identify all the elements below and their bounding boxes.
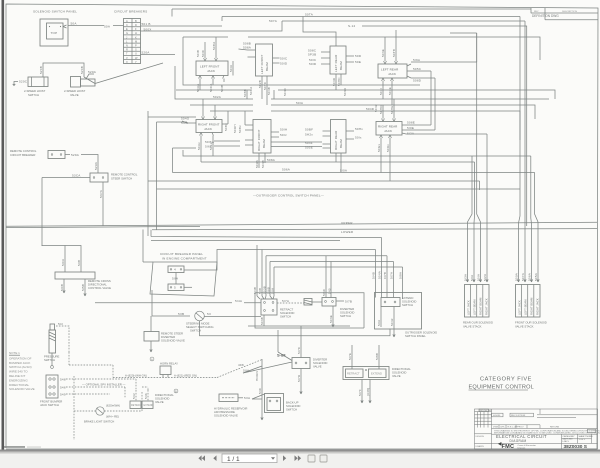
svg-text:508D: 508D bbox=[413, 79, 422, 83]
remote control steer switch bbox=[42, 173, 138, 247]
svg-text:RETURN: RETURN bbox=[550, 427, 560, 429]
svg-text:CONTROL VALVE: CONTROL VALVE bbox=[88, 286, 111, 290]
switch panel box (retract/diverter) bbox=[255, 293, 364, 328]
svg-text:VALVE STACK: VALVE STACK bbox=[463, 325, 482, 329]
svg-text:LEFT JACK: LEFT JACK bbox=[466, 300, 470, 315]
svg-text:X: X bbox=[126, 60, 128, 64]
svg-text:ENERGIZING: ENERGIZING bbox=[9, 378, 28, 382]
svg-text:HORN RELAY: HORN RELAY bbox=[160, 362, 178, 366]
svg-text:RIGHT JACK: RIGHT JACK bbox=[485, 298, 489, 315]
svg-text:Division: Division bbox=[518, 447, 526, 449]
svg-text:RELINE KIT: RELINE KIT bbox=[9, 374, 26, 378]
svg-text:50Gx: 50Gx bbox=[377, 144, 381, 152]
svg-text:CATEGORY: CATEGORY bbox=[563, 435, 576, 438]
svg-text:503E: 503E bbox=[381, 49, 385, 57]
outrigger solenoid switch panel box (extend) bbox=[375, 293, 422, 330]
wire 520A diagonal to hoist valve bbox=[95, 63, 163, 84]
FMC logo bbox=[498, 442, 536, 450]
svg-text:501 B: 501 B bbox=[142, 22, 151, 26]
svg-text:503B: 503B bbox=[260, 317, 264, 325]
svg-text:50IJ: 50IJ bbox=[280, 133, 287, 137]
svg-text:V: V bbox=[126, 56, 128, 60]
svg-text:RETRACT: RETRACT bbox=[347, 372, 360, 376]
svg-text:504D: 504D bbox=[366, 107, 375, 111]
svg-text:50HE: 50HE bbox=[390, 105, 394, 114]
svg-text:546: 546 bbox=[60, 386, 66, 390]
svg-text:5I6C: 5I6C bbox=[322, 288, 326, 296]
svg-text:SWITCH: SWITCH bbox=[280, 315, 291, 319]
svg-text:JACK: JACK bbox=[204, 127, 212, 131]
2-speed hoist valve bbox=[64, 70, 97, 97]
svg-text:5I2A: 5I2A bbox=[407, 132, 415, 136]
svg-text:508A: 508A bbox=[243, 46, 252, 50]
svg-text:EQUIPMENT CONTROL: EQUIPMENT CONTROL bbox=[469, 385, 534, 391]
svg-text:BEAM: BEAM bbox=[339, 139, 343, 148]
svg-text:504C: 504C bbox=[283, 87, 287, 96]
svg-text:50HD: 50HD bbox=[379, 105, 383, 114]
svg-text:R: R bbox=[126, 48, 128, 52]
svg-text:507A: 507A bbox=[521, 272, 525, 281]
op beam box: LEFT FRONT BEAM bbox=[239, 42, 288, 106]
svg-text:529A: 529A bbox=[71, 153, 80, 157]
svg-text:A: A bbox=[151, 357, 153, 361]
svg-text:509A: 509A bbox=[255, 159, 259, 168]
svg-text:OPERATION OF: OPERATION OF bbox=[9, 356, 32, 360]
svg-text:K: K bbox=[135, 35, 137, 39]
svg-text:5II: 5II bbox=[207, 312, 211, 316]
svg-text:50Hx: 50Hx bbox=[355, 127, 363, 131]
svg-text:DEFINITION DWG: DEFINITION DWG bbox=[532, 14, 559, 18]
rear valve stack wire bundle bbox=[466, 33, 488, 282]
svg-text:498: 498 bbox=[238, 363, 244, 367]
svg-text:5: 5 bbox=[174, 286, 176, 290]
toolbar bbox=[0, 450, 600, 468]
svg-text:RIGHT BEAM: RIGHT BEAM bbox=[479, 297, 483, 315]
svg-text:50ID: 50ID bbox=[309, 62, 317, 66]
svg-text:D: D bbox=[135, 23, 137, 27]
svg-text:A-(620)-(WH GN): A-(620)-(WH GN) bbox=[125, 373, 147, 377]
retract solenoid switch bbox=[95, 245, 350, 342]
svg-text:50IH: 50IH bbox=[280, 128, 287, 132]
svg-text:BEAM: BEAM bbox=[339, 61, 343, 70]
svg-text:SHEET NONE: SHEET NONE bbox=[579, 436, 594, 438]
svg-text:5I3A: 5I3A bbox=[464, 273, 468, 281]
svg-text:50Bx: 50Bx bbox=[238, 125, 242, 133]
svg-text:A: A bbox=[126, 19, 128, 23]
back-up alarm solenoid switch bbox=[243, 359, 300, 420]
svg-text:SWITCH: SWITCH bbox=[28, 93, 39, 97]
svg-text:50A: 50A bbox=[71, 22, 78, 26]
svg-text:5I0A: 5I0A bbox=[61, 258, 65, 266]
svg-text:JACK SWITCH: JACK SWITCH bbox=[40, 403, 59, 407]
svg-text:50BA: 50BA bbox=[249, 86, 253, 95]
svg-text:BEAM: BEAM bbox=[265, 62, 269, 71]
svg-text:50Bx: 50Bx bbox=[224, 123, 228, 131]
outrigger solenoid switch panel label bbox=[405, 331, 437, 339]
steering mode select switch bbox=[178, 311, 214, 332]
svg-text:(WH • RE): (WH • RE) bbox=[106, 415, 119, 419]
svg-text:5P3B: 5P3B bbox=[308, 52, 316, 56]
svg-text:S-88: S-88 bbox=[277, 353, 286, 358]
svg-text:504G: 504G bbox=[181, 117, 190, 121]
front our solenoid valve stack bbox=[515, 285, 547, 329]
svg-text:506A: 506A bbox=[528, 272, 532, 281]
svg-text:RIGHT REAR: RIGHT REAR bbox=[378, 125, 398, 129]
svg-text:504I: 504I bbox=[379, 88, 383, 95]
svg-text:BRAKE LIGHT SWITCH: BRAKE LIGHT SWITCH bbox=[84, 420, 114, 424]
svg-text:509A: 509A bbox=[515, 272, 519, 281]
svg-text:5I8A: 5I8A bbox=[399, 271, 403, 279]
svg-text:50IC: 50IC bbox=[201, 49, 205, 57]
svg-text:50TA: 50TA bbox=[305, 13, 314, 17]
beam-to-beam links row2 bbox=[271, 142, 322, 147]
svg-text:505A: 505A bbox=[534, 272, 538, 281]
svg-text:TOP: TOP bbox=[51, 31, 58, 35]
svg-text:50A: 50A bbox=[104, 25, 111, 29]
svg-text:0I7B: 0I7B bbox=[383, 272, 387, 279]
svg-text:54K: 54K bbox=[144, 392, 148, 399]
svg-text:508E: 508E bbox=[407, 121, 415, 125]
svg-text:SOLENOID VALVE: SOLENOID VALVE bbox=[161, 339, 185, 343]
svg-text:504A: 504A bbox=[378, 270, 382, 279]
svg-text:CHK: CHK bbox=[500, 427, 505, 429]
svg-text:5IIA: 5IIA bbox=[172, 277, 179, 281]
svg-text:53CA: 53CA bbox=[72, 174, 81, 178]
svg-text:520A: 520A bbox=[142, 51, 151, 55]
svg-text:LEFT BEAM: LEFT BEAM bbox=[472, 299, 476, 315]
svg-text:R.E.C. APPROV: R.E.C. APPROV bbox=[508, 426, 525, 429]
svg-text:503E: 503E bbox=[329, 315, 333, 323]
svg-text:548: 548 bbox=[60, 378, 66, 382]
svg-text:5I7A: 5I7A bbox=[282, 299, 290, 303]
svg-text:A-(621)-(RED GN): A-(621)-(RED GN) bbox=[174, 373, 197, 377]
svg-text:N: N bbox=[126, 44, 128, 48]
op jack box: RIGHT FRONT JACK bbox=[181, 99, 228, 162]
svg-text:C: C bbox=[126, 23, 128, 27]
svg-text:SWITCH: SWITCH bbox=[190, 329, 201, 333]
wire 501B bbox=[141, 25, 152, 27]
svg-text:BUMPER JACK: BUMPER JACK bbox=[9, 361, 30, 365]
svg-text:JACK: JACK bbox=[388, 72, 396, 76]
svg-text:DIRECTIONAL: DIRECTIONAL bbox=[9, 383, 30, 387]
svg-text:503F: 503F bbox=[305, 141, 313, 145]
svg-text:SWITCH: SWITCH bbox=[286, 408, 297, 412]
svg-text:50IB: 50IB bbox=[196, 50, 200, 57]
svg-text:5I6F: 5I6F bbox=[205, 145, 212, 149]
svg-text:5IIA: 5IIA bbox=[244, 396, 251, 400]
svg-text:506A: 506A bbox=[282, 168, 291, 172]
svg-text:VALVE: VALVE bbox=[313, 365, 322, 369]
horn relay bbox=[113, 357, 262, 393]
svg-text:54J: 54J bbox=[132, 393, 136, 399]
svg-text:(620)•(WH): (620)•(WH) bbox=[106, 404, 120, 408]
svg-text:G: G bbox=[126, 31, 128, 35]
svg-text:STEER SWITCH: STEER SWITCH bbox=[111, 177, 132, 181]
svg-text:520A: 520A bbox=[88, 70, 97, 74]
svg-text:LEFT BEAM: LEFT BEAM bbox=[523, 299, 527, 315]
svg-text:50IB: 50IB bbox=[220, 85, 224, 92]
lower-left bus loops bbox=[42, 230, 403, 296]
op jack box: RIGHT REAR JACK bbox=[376, 99, 487, 181]
remote cross directional control valve bbox=[55, 272, 111, 296]
svg-text:SOLENOID VALVE: SOLENOID VALVE bbox=[214, 414, 238, 418]
svg-text:REVISIONS: REVISIONS bbox=[480, 410, 492, 412]
svg-text:EXTEND: EXTEND bbox=[144, 404, 154, 407]
svg-text:50IA: 50IA bbox=[477, 273, 481, 281]
op beam box: LEFT REAR BEAM bbox=[308, 46, 362, 90]
svg-text:HORN: HORN bbox=[255, 371, 259, 381]
svg-text:DESCRIPTION: DESCRIPTION bbox=[562, 11, 577, 13]
circuit breakers strip bbox=[114, 10, 175, 64]
svg-text:SOLENOID SWITCH PANEL: SOLENOID SWITCH PANEL bbox=[33, 10, 77, 14]
svg-text:507A: 507A bbox=[269, 19, 278, 23]
svg-text:SWITCH (ALSO): SWITCH (ALSO) bbox=[9, 365, 32, 369]
remote control circuit breaker bbox=[10, 149, 98, 173]
svg-text:5I5B: 5I5B bbox=[81, 284, 85, 291]
svg-text:50CA: 50CA bbox=[209, 83, 213, 92]
svg-text:5I7C: 5I7C bbox=[297, 346, 301, 354]
svg-text:502A: 502A bbox=[213, 95, 222, 99]
svg-text:5042: 5042 bbox=[374, 104, 378, 112]
svg-text:508A: 508A bbox=[267, 158, 276, 162]
svg-text:505C: 505C bbox=[413, 67, 422, 71]
svg-text:5I8B: 5I8B bbox=[375, 353, 379, 360]
svg-text:Crane & Excavator: Crane & Excavator bbox=[518, 444, 537, 447]
svg-text:5I2A: 5I2A bbox=[483, 273, 487, 281]
svg-text:50D: 50D bbox=[355, 54, 362, 58]
svg-text:DIAGRAM: DIAGRAM bbox=[510, 439, 527, 443]
svg-text:LOWER: LOWER bbox=[341, 230, 354, 234]
diverter solenoid valve bbox=[292, 342, 327, 394]
svg-text:JACK: JACK bbox=[207, 69, 215, 73]
svg-text:5I4A: 5I4A bbox=[235, 299, 243, 303]
rear our solenoid valve stack bbox=[463, 285, 493, 329]
svg-text:50ID: 50ID bbox=[280, 62, 288, 66]
extend solenoid switch bbox=[372, 270, 417, 337]
diverter solenoid switch bbox=[322, 256, 354, 327]
svg-text:502B: 502B bbox=[258, 80, 262, 88]
svg-text:5IIB: 5IIB bbox=[77, 260, 81, 266]
op jack box: LEFT REAR JACK bbox=[378, 30, 477, 130]
svg-text:CATEGORY FIVE: CATEGORY FIVE bbox=[480, 377, 532, 383]
brake light switch bbox=[74, 392, 142, 424]
node S-88 bbox=[243, 330, 292, 373]
svg-text:50Ax: 50Ax bbox=[197, 142, 201, 150]
title block bbox=[475, 409, 598, 449]
svg-text:CIRCUIT BREAKERS: CIRCUIT BREAKERS bbox=[114, 10, 147, 14]
directional solenoid valve (retract/extend) bbox=[343, 345, 411, 403]
svg-text:LEFT FRONT: LEFT FRONT bbox=[260, 54, 264, 74]
svg-text:(648): (648) bbox=[366, 388, 370, 396]
optional dashed harness bbox=[66, 352, 148, 440]
solenoid switch panel bbox=[33, 10, 77, 47]
svg-text:5I7A: 5I7A bbox=[390, 271, 394, 279]
svg-text:500X: 500X bbox=[144, 27, 152, 31]
svg-text:DESIGN: DESIGN bbox=[476, 436, 485, 438]
svg-text:5I7D: 5I7D bbox=[297, 374, 301, 382]
svg-text:RETRACT: RETRACT bbox=[131, 404, 143, 407]
svg-text:RIGHT FRONT: RIGHT FRONT bbox=[198, 123, 220, 127]
wire 520B switch to valve bbox=[39, 63, 84, 77]
wire 500X bbox=[141, 30, 155, 32]
svg-text:SOLENOID VALVE: SOLENOID VALVE bbox=[9, 387, 35, 391]
svg-text:520B: 520B bbox=[39, 66, 43, 74]
svg-text:NOTE 1: NOTE 1 bbox=[9, 351, 20, 355]
svg-text:5I9A: 5I9A bbox=[413, 58, 421, 62]
svg-text:50TB: 50TB bbox=[392, 49, 396, 57]
svg-text:RIGHT FRONT: RIGHT FRONT bbox=[257, 129, 261, 151]
svg-text:SWITCH: SWITCH bbox=[340, 314, 351, 318]
wire 50A panel to breakers bbox=[68, 22, 123, 29]
svg-text:P: P bbox=[135, 44, 137, 48]
svg-text:— OPTIONAL SPV INSTALLER —: — OPTIONAL SPV INSTALLER — bbox=[82, 383, 126, 387]
svg-text:B: B bbox=[135, 19, 137, 23]
svg-text:50IA: 50IA bbox=[229, 64, 233, 72]
svg-text:50E: 50E bbox=[355, 60, 361, 64]
retract/extend small directional valve bbox=[130, 390, 174, 409]
upper section bus wires (top loops) bbox=[172, 9, 531, 226]
svg-text:5I0H: 5I0H bbox=[181, 121, 188, 125]
svg-text:54I: 54I bbox=[58, 322, 63, 326]
svg-text:RIGHT BEAM: RIGHT BEAM bbox=[530, 297, 534, 315]
2-speed hoist switch bbox=[13, 77, 48, 97]
svg-text:EXTEND: EXTEND bbox=[371, 372, 382, 376]
svg-text:38Z0030 S: 38Z0030 S bbox=[564, 444, 588, 450]
svg-text:CAT 5 MO: CAT 5 MO bbox=[563, 438, 573, 441]
svg-text:SWITCH PANEL: SWITCH PANEL bbox=[405, 334, 426, 338]
svg-text:50I6A: 50I6A bbox=[205, 140, 215, 144]
upper section bus wires (left/bottom loops) bbox=[148, 21, 535, 236]
inner bus wires between jack/beam rows bbox=[148, 37, 555, 140]
svg-text:5I4B: 5I4B bbox=[372, 272, 376, 279]
svg-text:50Ix: 50Ix bbox=[355, 136, 362, 140]
svg-text:LGE 5: LGE 5 bbox=[563, 441, 570, 443]
svg-text:504J: 504J bbox=[390, 318, 394, 326]
op beam box: RIGHT REAR BEAM bbox=[305, 120, 363, 173]
svg-text:1 OF 1: 1 OF 1 bbox=[579, 439, 586, 441]
left sidebar strip bbox=[2, 0, 5, 452]
svg-text:IN ENGINE COMPARTMENT: IN ENGINE COMPARTMENT bbox=[162, 257, 207, 261]
wire from engine panel to steering mode switch bbox=[152, 290, 390, 336]
svg-text:JACK: JACK bbox=[384, 129, 392, 133]
svg-text:CIRCUIT BREAKER: CIRCUIT BREAKER bbox=[10, 153, 35, 157]
hydraulic reservoir air pressure solenoid valve bbox=[214, 394, 262, 418]
inline fuse between retract and diverter bbox=[277, 299, 322, 306]
svg-text:505E: 505E bbox=[305, 146, 313, 150]
svg-text:U: U bbox=[135, 52, 137, 56]
svg-text:504B: 504B bbox=[267, 87, 271, 95]
svg-text:5I7B: 5I7B bbox=[345, 300, 352, 304]
svg-text:5IIA: 5IIA bbox=[377, 319, 381, 326]
svg-text:520C: 520C bbox=[19, 80, 28, 84]
svg-text:Y: Y bbox=[135, 60, 137, 64]
upper/lower divider bbox=[6, 221, 597, 234]
svg-text:LEFT FRONT: LEFT FRONT bbox=[200, 65, 220, 69]
svg-text:LEFT REAR: LEFT REAR bbox=[381, 68, 399, 72]
svg-text:BEAM: BEAM bbox=[262, 139, 266, 148]
svg-text:503D: 503D bbox=[343, 87, 347, 96]
svg-text:50HC: 50HC bbox=[337, 77, 341, 86]
svg-text:5IIA: 5IIA bbox=[470, 274, 474, 281]
definition box top right bbox=[531, 8, 598, 20]
svg-text:50IC: 50IC bbox=[280, 57, 288, 61]
front valve stack wire bundle bbox=[517, 17, 539, 283]
svg-text:REV-8-RT508I: REV-8-RT508I bbox=[511, 415, 526, 417]
svg-text:5I0B: 5I0B bbox=[60, 284, 64, 291]
svg-text:SWITCH: SWITCH bbox=[402, 303, 413, 307]
svg-text:VALVE: VALVE bbox=[70, 93, 79, 97]
front bumper jack switch bbox=[40, 375, 66, 407]
svg-text:5IIB: 5IIB bbox=[178, 312, 184, 316]
wire stub x175 bbox=[175, 66, 205, 99]
svg-text:LEFT JACK: LEFT JACK bbox=[517, 300, 521, 315]
svg-text:549: 549 bbox=[60, 393, 66, 397]
svg-text:504E: 504E bbox=[388, 87, 392, 95]
svg-text:VALVE: VALVE bbox=[392, 374, 401, 378]
svg-text:50AA: 50AA bbox=[196, 83, 200, 92]
svg-text:50Dx: 50Dx bbox=[386, 144, 390, 152]
svg-text:VALVE: VALVE bbox=[155, 400, 164, 404]
page footer micro text bbox=[4, 446, 25, 448]
svg-text:RIGHT REAR: RIGHT REAR bbox=[334, 130, 338, 150]
svg-text:50IA: 50IA bbox=[296, 101, 304, 105]
svg-text:FMC: FMC bbox=[502, 444, 515, 450]
svg-text:5I7E: 5I7E bbox=[348, 353, 352, 360]
svg-text:54C: 54C bbox=[258, 387, 262, 394]
svg-text:5H2x: 5H2x bbox=[305, 133, 313, 137]
svg-text:B: B bbox=[175, 389, 177, 393]
svg-text:DRAWN: DRAWN bbox=[476, 445, 485, 448]
svg-text:S-14: S-14 bbox=[348, 24, 355, 28]
svg-text:50DH: 50DH bbox=[233, 124, 237, 133]
svg-text:4: 4 bbox=[174, 268, 176, 272]
remote steer diverter solenoid valve bbox=[144, 316, 185, 352]
svg-text:WIRE 540 TO: WIRE 540 TO bbox=[9, 370, 28, 374]
svg-text:53?A: 53?A bbox=[99, 189, 103, 198]
pressure switch bbox=[44, 322, 69, 368]
svg-text:5I7F: 5I7F bbox=[358, 389, 362, 396]
note 1 text block bbox=[9, 351, 35, 391]
circuit breaker panel in engine compartment bbox=[143, 230, 262, 297]
op beam box: RIGHT FRONT BEAM bbox=[205, 111, 287, 168]
svg-text:508B: 508B bbox=[243, 89, 247, 97]
svg-text:5I0E: 5I0E bbox=[407, 126, 414, 130]
svg-text:LEFT REAR: LEFT REAR bbox=[334, 54, 338, 72]
svg-text:DWN: DWN bbox=[493, 427, 499, 429]
svg-text:H: H bbox=[135, 31, 137, 35]
svg-text:VALVE STACK: VALVE STACK bbox=[515, 325, 534, 329]
svg-text:504D: 504D bbox=[332, 77, 336, 86]
svg-text:50BF: 50BF bbox=[305, 128, 313, 132]
svg-text:SWITCH: SWITCH bbox=[44, 358, 55, 362]
svg-text:520B: 520B bbox=[80, 66, 84, 74]
svg-text:REV: REV bbox=[534, 11, 539, 13]
svg-text:529A: 529A bbox=[94, 161, 98, 170]
svg-text:1 / 1: 1 / 1 bbox=[227, 456, 240, 463]
wire 520A from breaker bbox=[141, 54, 176, 56]
category five equipment control title bbox=[469, 377, 534, 391]
svg-text:50BA: 50BA bbox=[212, 41, 216, 50]
svg-text:504B: 504B bbox=[261, 160, 265, 168]
svg-text:CIRCUIT BREAKER PANEL: CIRCUIT BREAKER PANEL bbox=[160, 252, 203, 256]
svg-text:S: S bbox=[135, 48, 137, 52]
wires from loops to extend switch bbox=[376, 238, 403, 281]
svg-text:E: E bbox=[126, 27, 128, 31]
svg-text:H-5080: H-5080 bbox=[493, 415, 501, 417]
op jack box: LEFT FRONT JACK bbox=[196, 37, 233, 92]
svg-text:RIGHT JACK: RIGHT JACK bbox=[536, 298, 540, 315]
svg-text:M: M bbox=[135, 39, 137, 43]
